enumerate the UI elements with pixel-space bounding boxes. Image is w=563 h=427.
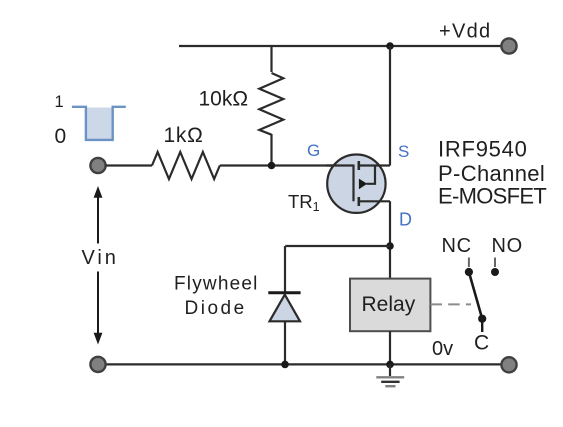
wire diode bottom lead bbox=[284, 321, 286, 364]
svg-text:NC: NC bbox=[442, 235, 472, 257]
svg-text:Vin: Vin bbox=[82, 247, 119, 269]
svg-text:10kΩ: 10kΩ bbox=[199, 88, 249, 111]
terminal input Vin bbox=[90, 158, 105, 173]
node junction relay/rail bbox=[386, 361, 394, 369]
ground bar 3 bbox=[385, 385, 395, 387]
contact dot C bbox=[478, 315, 486, 323]
resistor 10k zigzag bbox=[259, 73, 283, 135]
Vin arrow upper shaft bbox=[97, 196, 99, 244]
wire gate inside MOSFET bbox=[326, 164, 354, 166]
svg-text:D: D bbox=[399, 209, 412, 229]
wire diode top lead bbox=[284, 246, 286, 292]
NO lead tick bbox=[494, 258, 496, 268]
svg-text:0v: 0v bbox=[432, 338, 453, 360]
wire source vertical bbox=[389, 46, 391, 166]
svg-text:C: C bbox=[474, 332, 489, 355]
wire relay to ground bbox=[389, 331, 391, 364]
switch arm bbox=[469, 272, 482, 319]
node junction drain/diode bbox=[386, 242, 394, 250]
ground stem bbox=[389, 364, 391, 376]
wire drain vertical bbox=[389, 201, 391, 278]
contact dot NO bbox=[491, 268, 499, 276]
terminal bottom right bbox=[501, 357, 516, 372]
terminal +Vdd bbox=[501, 38, 516, 53]
relay box bbox=[350, 279, 430, 332]
MOSFET source internal wire bbox=[359, 164, 390, 166]
wire top +Vdd rail bbox=[179, 45, 502, 47]
MOSFET channel tick source bbox=[357, 161, 360, 170]
node junction top rail / source bbox=[386, 42, 394, 50]
node junction gate/divider bbox=[268, 162, 276, 170]
wire 10k bottom lead bbox=[270, 134, 272, 166]
Vin arrow lower shaft bbox=[97, 272, 99, 336]
Vin arrow down head bbox=[94, 333, 103, 345]
wire gate line bbox=[220, 164, 354, 166]
svg-text:Flywheel: Flywheel bbox=[174, 274, 259, 295]
diode cathode bar bbox=[268, 291, 300, 294]
svg-text:G: G bbox=[307, 141, 320, 160]
node junction diode/rail bbox=[281, 361, 289, 369]
svg-text:+Vdd: +Vdd bbox=[439, 21, 491, 43]
MOSFET channel tick drain bbox=[357, 197, 360, 206]
svg-text:Diode: Diode bbox=[185, 298, 247, 319]
MOSFET body arrow (P-channel) bbox=[359, 179, 367, 190]
wire C stub bbox=[481, 319, 483, 332]
svg-text:1kΩ: 1kΩ bbox=[164, 124, 204, 147]
ground bar 1 bbox=[376, 376, 404, 378]
svg-text:NO: NO bbox=[492, 235, 523, 257]
wire 10k top lead bbox=[270, 46, 272, 72]
MOSFET gate bar bbox=[352, 165, 354, 202]
wire diode branch horizontal bbox=[285, 245, 390, 247]
MOSFET body connection wire bbox=[367, 166, 376, 184]
contact dot NC bbox=[465, 268, 473, 276]
svg-text:Relay: Relay bbox=[362, 293, 416, 316]
MOSFET TR1 body circle bbox=[327, 155, 385, 213]
diode triangle bbox=[270, 295, 301, 322]
svg-text:E-MOSFET: E-MOSFET bbox=[438, 184, 546, 209]
ground bar 2 bbox=[381, 381, 399, 383]
MOSFET drain internal wire bbox=[359, 200, 390, 202]
svg-text:IRF9540: IRF9540 bbox=[438, 137, 528, 162]
Vin arrow up head bbox=[94, 186, 103, 198]
svg-text:P-Channel: P-Channel bbox=[438, 161, 545, 186]
relay actuator dashed link bbox=[431, 303, 472, 305]
svg-text:S: S bbox=[398, 142, 409, 161]
terminal bottom left bbox=[90, 357, 105, 372]
svg-text:0: 0 bbox=[55, 125, 67, 148]
wire bottom 0v rail bbox=[106, 363, 503, 365]
input pulse waveform trace bbox=[72, 107, 126, 140]
svg-text:1: 1 bbox=[55, 93, 64, 111]
wire input to 1k bbox=[106, 164, 153, 166]
input pulse waveform fill bbox=[86, 108, 113, 140]
NC lead tick bbox=[468, 258, 470, 268]
resistor 1k zigzag bbox=[152, 152, 220, 179]
